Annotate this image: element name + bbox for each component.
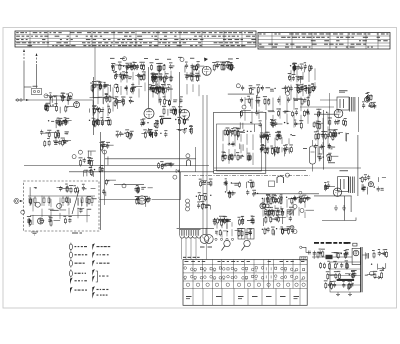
input jack xyxy=(16,99,29,101)
mini grid top right of table xyxy=(300,257,308,260)
psu core lines xyxy=(361,247,362,292)
ref circle 9 xyxy=(103,150,107,154)
psu ground 2 xyxy=(348,292,352,296)
ref circle 24 xyxy=(370,271,374,275)
wire out2 row xyxy=(314,195,352,197)
legend item R3 xyxy=(92,260,109,267)
ref circle 21 xyxy=(300,209,304,213)
terminal caps dark xyxy=(222,219,229,222)
RC group psu right xyxy=(365,249,388,279)
legend item R5 xyxy=(92,276,95,283)
RC group B2 small xyxy=(158,161,175,170)
wire antenna row xyxy=(15,99,93,101)
RC group center mid xyxy=(224,178,259,198)
legend item R6 xyxy=(92,286,108,293)
wires box leads xyxy=(223,130,253,165)
legend item R2 xyxy=(92,252,108,259)
RC group keys left xyxy=(213,216,255,237)
ref circle 16 xyxy=(21,210,25,214)
RC group under tube2 xyxy=(176,116,192,134)
wire bus x329.7 xyxy=(329,93,331,133)
wire bus x104.5 xyxy=(104,150,106,205)
label out1 xyxy=(339,90,348,92)
legend lamp L6 xyxy=(70,287,87,294)
wire A3 row xyxy=(228,93,254,95)
tube AF2 xyxy=(260,203,266,209)
valve data table xyxy=(183,257,307,306)
terminal dots xyxy=(215,238,234,240)
transformer T1 xyxy=(350,97,355,112)
ref circle 5 xyxy=(180,58,184,62)
wire bus x100.5 xyxy=(100,132,102,230)
wire rail h3 xyxy=(214,167,361,169)
wire AF rail xyxy=(255,193,319,195)
tube input xyxy=(74,102,80,108)
wire bus x357.9 xyxy=(357,135,359,196)
wire dashed box bus xyxy=(28,195,95,197)
wire drop x180.4 xyxy=(179,172,181,200)
ref circle 17 xyxy=(186,199,190,203)
wires keysleft leads xyxy=(217,222,232,237)
RC group AF dense xyxy=(262,194,314,217)
wire L bend xyxy=(152,199,181,201)
RC group B2 topstrip1 xyxy=(116,129,134,139)
label out2 xyxy=(328,162,348,171)
ground out2 b xyxy=(342,205,346,211)
psu choke xyxy=(326,255,333,259)
RC group B2 mid2 xyxy=(199,179,213,188)
coil bank xyxy=(179,229,201,238)
tube B1 IF xyxy=(144,109,154,119)
tube out2 xyxy=(333,188,341,196)
RC group psu row xyxy=(313,249,349,260)
ref circle 13 xyxy=(285,173,289,177)
pilot lamp xyxy=(353,250,359,256)
RC group B1 chain xyxy=(79,151,96,177)
legend lamp L2 xyxy=(69,251,87,259)
wire rail h2 xyxy=(69,171,214,173)
wires dashedbox leads xyxy=(33,196,87,226)
tube socket pair xyxy=(200,235,213,248)
wire to L1 xyxy=(24,86,32,88)
RC group B3 top xyxy=(259,131,295,157)
wire bus x207 xyxy=(206,95,208,235)
RC group IF1 xyxy=(111,62,145,81)
wires IF2 leads xyxy=(153,71,171,104)
wires mixer leads xyxy=(291,68,315,100)
RC group jacks1 xyxy=(362,92,376,109)
dashed arrow node A2 xyxy=(36,53,38,64)
RC group B2 tube area xyxy=(134,185,152,207)
dashed arrow node A1 xyxy=(23,49,25,61)
tube AF1 xyxy=(138,196,146,204)
RC group below tube1 xyxy=(328,118,349,142)
RC group IF2 xyxy=(149,62,174,93)
ground IF1 xyxy=(147,128,151,134)
jack out2a xyxy=(368,182,373,187)
key jack 1 xyxy=(222,240,231,250)
RC group B1 upper xyxy=(48,117,72,128)
wire left riser xyxy=(36,64,38,88)
wires A3 leads xyxy=(245,96,308,128)
transformer T2 xyxy=(349,177,354,194)
key jack 2 xyxy=(242,240,251,250)
box out1 xyxy=(337,97,349,110)
box L1 710 xyxy=(32,86,42,95)
ref circle 18 xyxy=(186,203,190,207)
ref circle 15 xyxy=(78,150,82,154)
wire bus x203 xyxy=(202,95,204,235)
title table left xyxy=(15,31,256,47)
psu rect block xyxy=(352,248,360,264)
RC group B2 low xyxy=(196,192,212,209)
legend item R4 xyxy=(92,269,95,276)
psu grid box xyxy=(330,262,361,292)
wire rail B2 xyxy=(105,158,196,160)
psu grid line1 xyxy=(330,268,361,270)
RC group dashed interior xyxy=(27,184,97,227)
ref circle 23 xyxy=(293,230,297,234)
ref circle 10 xyxy=(122,184,126,188)
tube mixer xyxy=(202,66,211,75)
jack out1b xyxy=(369,103,374,108)
wires IF3 leads xyxy=(187,70,199,96)
wires B3top leads xyxy=(261,136,289,155)
wires right chain leads xyxy=(318,112,328,157)
mains plug arrows xyxy=(374,267,385,279)
psu title text xyxy=(314,242,357,246)
RC group A3 small xyxy=(212,61,234,71)
ref circle 12 xyxy=(186,154,190,158)
wire socket riser xyxy=(205,228,207,235)
wire col x95 xyxy=(94,47,96,80)
ref circle 19 xyxy=(186,207,190,211)
pickup jack xyxy=(14,198,23,203)
shield box outer xyxy=(214,112,266,173)
ref circle 14 xyxy=(72,155,76,159)
box out2 xyxy=(338,177,349,192)
legend lamp L3 xyxy=(69,259,84,267)
RC group B1 top xyxy=(40,130,71,148)
ref circle 2 xyxy=(44,94,48,98)
psu grid line2 xyxy=(330,275,361,277)
shield box inner xyxy=(217,124,262,171)
ref circle 4 xyxy=(114,84,118,88)
jack out1a xyxy=(365,97,370,102)
psu dark bar xyxy=(337,279,355,281)
RC group jacks2 xyxy=(359,174,386,194)
wire bus x306.5 xyxy=(312,164,314,172)
label under dashed box xyxy=(72,233,82,234)
resistor row in dashed box xyxy=(29,196,93,206)
tube AF preamp a xyxy=(35,202,40,207)
wire dashed box lower bus xyxy=(30,215,90,217)
wire bottom hook xyxy=(322,220,356,222)
box AF small xyxy=(269,181,275,187)
wire drop x344.6 xyxy=(344,196,346,221)
tube B2 IF xyxy=(180,110,190,120)
wire antenna bus xyxy=(23,61,25,100)
RC group psu grid xyxy=(320,260,357,290)
RC group ant row xyxy=(45,92,75,113)
RC group A2 mid xyxy=(149,84,169,94)
wire bus x148.5 xyxy=(148,67,150,108)
RC group right chain xyxy=(313,109,338,162)
legend item R1 xyxy=(92,243,110,250)
legend lamp L4 xyxy=(69,269,86,277)
ref circle 8 xyxy=(286,91,290,95)
ref circle 7 xyxy=(242,105,246,109)
wire socket to table xyxy=(206,244,208,259)
legend lamp L5 xyxy=(70,278,87,285)
top label row xyxy=(110,57,239,60)
ref circle 11 xyxy=(173,175,177,179)
wire bus x195.4 xyxy=(194,147,196,172)
wires IF1 leads xyxy=(121,71,145,97)
ref circle 20 xyxy=(293,205,297,209)
coil hook AF xyxy=(277,176,284,183)
wire out1 row xyxy=(314,113,338,115)
RC group A2 left xyxy=(113,84,142,109)
wire bus x93.7 xyxy=(93,77,95,135)
RC group AF right bits xyxy=(324,182,335,192)
RC group between tubes xyxy=(159,96,183,124)
wire plate link xyxy=(320,99,337,101)
ref circle AF a xyxy=(262,204,266,208)
RC group mixer top xyxy=(287,62,316,96)
RC group under tube1 xyxy=(140,119,159,139)
wire bus x179.7 xyxy=(179,72,181,228)
wire bus x358.6 xyxy=(358,97,360,132)
ground out2 a xyxy=(334,205,338,211)
wire coil feed xyxy=(177,227,214,229)
psu grid line3 xyxy=(330,284,361,286)
RC group IF3 xyxy=(184,61,204,82)
ref circle 6 xyxy=(236,84,240,88)
wire B2 left xyxy=(114,184,144,186)
ref circle AF b xyxy=(266,204,270,208)
wire grid link xyxy=(300,106,334,108)
power takeoff wire xyxy=(300,246,311,254)
RC group B2 topstrip2 xyxy=(148,129,167,138)
wire rail h4 xyxy=(214,169,306,171)
wire box to AF1 xyxy=(99,199,138,201)
tube dashed box xyxy=(38,218,44,224)
wire drop x351.1 xyxy=(350,196,352,212)
psu right link xyxy=(362,253,368,259)
dash-dot alignment line xyxy=(184,174,310,176)
wire bus x323.5 xyxy=(323,110,325,170)
tube AF preamp b xyxy=(57,203,62,208)
ground under dashed box xyxy=(31,232,38,235)
legend lamp L1 xyxy=(69,243,87,251)
wires coil to table xyxy=(182,238,197,259)
legend bracket xyxy=(96,271,109,282)
psu ground 1 xyxy=(336,292,340,296)
diode D1 xyxy=(176,170,179,173)
pickup arrow mark xyxy=(204,58,208,62)
RC group keys right xyxy=(262,214,295,235)
switch bank xyxy=(238,229,254,240)
ref circle 22 xyxy=(290,226,294,230)
RC group A3 dense xyxy=(240,84,310,132)
dashed box chassis xyxy=(24,181,100,231)
switch lever xyxy=(72,190,79,214)
psu feed wire xyxy=(312,256,352,258)
coil hook xyxy=(187,160,191,166)
title table right xyxy=(258,33,390,50)
junction lamp xyxy=(299,191,302,194)
electrolytic C50 xyxy=(303,140,316,164)
wire bus x256.3 xyxy=(255,95,257,112)
wire rail h1 xyxy=(24,165,209,167)
RC group left block xyxy=(89,81,114,128)
wires AF leads xyxy=(263,198,305,218)
ground IF2 xyxy=(183,128,187,134)
legend item R7 xyxy=(92,292,107,299)
RC group box interior xyxy=(221,127,251,161)
RC group x100 parts xyxy=(99,141,116,196)
tube out1 xyxy=(334,109,343,118)
wire hook end xyxy=(355,218,357,221)
wires left block leads xyxy=(93,87,113,125)
ref circle 3 xyxy=(68,93,72,97)
ref circle 1 xyxy=(123,57,127,61)
